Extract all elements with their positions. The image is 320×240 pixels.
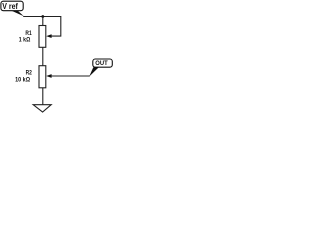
wire R1 bottom to R2 top — [42, 47, 44, 65]
node V ref flag — [1, 1, 24, 16]
wire top horizontal — [23, 16, 61, 18]
resistor R1 body — [39, 26, 46, 48]
svg-text:OUT: OUT — [95, 60, 108, 67]
wire R2 wiper to OUT — [51, 75, 89, 77]
ground — [33, 105, 51, 112]
svg-text:1 kΩ: 1 kΩ — [19, 36, 31, 43]
wire junction to R1 top — [42, 17, 44, 26]
svg-text:10 kΩ: 10 kΩ — [15, 77, 30, 84]
R1 wiper arrow — [46, 34, 51, 38]
node OUT flag — [89, 59, 112, 77]
svg-text:R2: R2 — [26, 69, 33, 76]
node junction dot — [41, 15, 44, 18]
resistor R2 body — [39, 66, 46, 88]
R2 wiper arrow — [46, 74, 51, 78]
svg-text:V ref: V ref — [2, 2, 18, 11]
wire R2 bottom to ground — [42, 88, 44, 105]
wire wiper loop right and down — [51, 17, 60, 37]
